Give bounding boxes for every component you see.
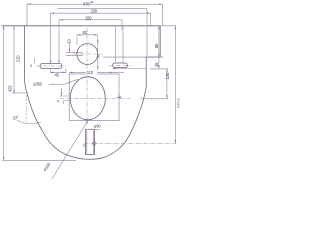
leader d350 [49,79,78,84]
body outline left edge [24,26,50,144]
dim 95 right [158,26,160,57]
dim line to step [113,68,147,70]
dim 10 inlet [66,43,83,55]
svg-text:230: 230 [91,9,98,14]
left slot center line [36,65,67,67]
dim d40 drain [86,128,101,130]
bottom extension line [2,159,76,161]
drain center line to right [84,143,177,145]
svg-text:272.5: 272.5 [177,98,180,108]
right fixing slot [113,63,128,68]
bowl center line horizontal [60,97,131,99]
dim 272.5 right [160,26,176,144]
left fixing slot [40,63,62,68]
dim 135 right [141,69,169,99]
inlet center line horizontal [72,53,103,55]
angle ref dashed line [25,95,27,121]
right slot center line [109,64,132,66]
dim 45 [50,69,66,73]
body front arc [51,140,127,160]
dim 150 [59,20,122,30]
dim 425 left [3,26,5,161]
dim 110 [69,71,124,73]
center rect 110 [69,74,119,121]
step shelf line [103,56,164,58]
angle arc 22deg [17,120,41,123]
dim d55 right of circle [97,35,99,70]
svg-text:135: 135 [165,72,170,79]
body right edge [127,26,160,140]
drain inner lines [87,131,94,154]
drain bolt circle [93,142,97,146]
dim row elbow upper [58,9,148,57]
drain outer rect [86,129,95,154]
right slot ext lines [116,26,124,63]
dim 60 [77,35,98,45]
bowl ellipse [70,77,105,120]
inlet center line vertical [86,28,88,125]
dim 210 left [12,26,28,94]
dim 25 slot left [34,58,36,63]
svg-text:110: 110 [87,70,94,75]
svg-text:425: 425 [8,85,13,92]
dim 20 left of rect [60,88,69,104]
inlet circle d55 [77,44,98,65]
left slot ext lines [51,13,60,63]
svg-text:210: 210 [15,55,20,62]
dim 230 [51,13,151,26]
R150 radius line [52,120,89,180]
dim 35 right [150,57,168,69]
svg-text:⌀40: ⌀40 [94,124,101,129]
wall line (rear edge) [2,25,161,27]
dim 370 top [27,4,163,26]
dim 30 right of rect [117,97,122,99]
svg-text:150: 150 [85,15,92,20]
svg-text:⌀350: ⌀350 [33,82,43,87]
